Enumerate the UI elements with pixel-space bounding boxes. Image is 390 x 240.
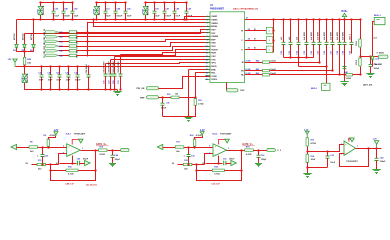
svg-text:100nF: 100nF [116, 16, 123, 18]
jumper J28 [266, 37, 273, 44]
svg-text:100nF 100V: 100nF 100V [113, 61, 115, 73]
wire [308, 167, 328, 169]
resistor R44 [263, 61, 270, 63]
resistor R25 [212, 169, 224, 171]
resistor R10 [99, 149, 108, 151]
wire + input [163, 147, 214, 148]
wire [254, 150, 267, 152]
wire [360, 67, 362, 75]
svg-text:R42: R42 [59, 36, 62, 39]
capacitor C29 [113, 74, 117, 90]
svg-text:10nF: 10nF [330, 162, 335, 164]
wire to U1 pin 4 [94, 20, 211, 27]
wire [114, 57, 116, 75]
wire to U1 pin 18 [196, 73, 211, 98]
capacitor C36 [161, 97, 165, 116]
svg-text:BUS-1: BUS-1 [311, 88, 318, 90]
capacitor C48 [71, 2, 75, 19]
U1 pin 8 [205, 39, 210, 41]
wire [270, 70, 333, 72]
wire [59, 32, 70, 34]
svg-text:C49: C49 [115, 154, 118, 157]
svg-text:C50: C50 [281, 51, 283, 54]
svg-text:100nF 100V: 100nF 100V [118, 61, 120, 73]
net flag C5_C5 [46, 31, 59, 34]
svg-text:BG5H: BG5H [211, 26, 217, 28]
wire [226, 163, 231, 165]
capacitor C46 [87, 67, 91, 90]
net flag C5_C4 [46, 35, 59, 38]
svg-text:C60: C60 [350, 51, 352, 54]
svg-text:R45: R45 [256, 68, 259, 71]
wire PW_OK to U1 [159, 77, 211, 89]
wire output [227, 150, 245, 152]
svg-text:54DC= NPVA0986ML323: 54DC= NPVA0986ML323 [233, 8, 259, 11]
wire feedback outer [51, 151, 96, 181]
U1 pin 4 [205, 26, 210, 28]
svg-text:C53: C53 [304, 51, 306, 54]
svg-text:4.7kΩ: 4.7kΩ [68, 173, 74, 176]
resistor R45 [69, 50, 77, 52]
power V+ IC4.1 [72, 140, 81, 145]
svg-text:NuF 400V: NuF 400V [303, 31, 306, 40]
U1 pin 19 [205, 75, 210, 77]
capacitor C44 [114, 2, 118, 19]
svg-text:100nF: 100nF [374, 68, 381, 70]
svg-text:SMF18CA: SMF18CA [42, 5, 45, 15]
svg-text:C51: C51 [289, 51, 291, 54]
resistor R6 [29, 146, 38, 148]
svg-text:CSC: CSC [240, 90, 245, 92]
svg-text:C46 100nF: C46 100nF [85, 63, 88, 73]
svg-text:100nF: 100nF [64, 16, 71, 18]
svg-text:TSV912IDT: TSV912IDT [220, 133, 232, 135]
svg-text:R44: R44 [59, 45, 62, 48]
wire comb row 2 [299, 66, 327, 68]
net flag C5_C3 [46, 40, 59, 43]
svg-text:R41: R41 [59, 31, 62, 34]
svg-text:C34 1nF: C34 1nF [211, 182, 220, 185]
svg-text:TVS2: TVS2 [142, 8, 144, 14]
wire BUS+ rail [245, 19, 361, 21]
wire [48, 147, 50, 148]
resistor R50 [23, 57, 25, 65]
wire [60, 163, 77, 165]
wire [245, 62, 263, 64]
wire [353, 74, 361, 76]
svg-text:CSC: CSC [211, 56, 216, 58]
wire [226, 83, 228, 91]
capacitor C45 [124, 2, 128, 19]
resistor R21 [183, 163, 192, 165]
svg-text:SMF18CA: SMF18CA [26, 73, 29, 83]
net flag V_J [267, 149, 276, 152]
svg-text:C57: C57 [331, 51, 333, 54]
resistor R12 [66, 169, 78, 171]
svg-text:C52: C52 [297, 51, 299, 54]
svg-text:100nF: 100nF [83, 159, 89, 161]
power flag 12V [13, 59, 17, 67]
svg-text:C59: C59 [343, 51, 345, 54]
wire + input [308, 145, 345, 152]
resistor R51 [359, 39, 361, 47]
svg-text:(21.3A:2V): (21.3A:2V) [86, 183, 97, 186]
U1 pin 14 [205, 59, 210, 61]
svg-text:10uF: 10uF [39, 80, 44, 82]
svg-text:2TB-0: 2TB-0 [356, 41, 358, 46]
ground [340, 81, 348, 86]
U1 pin 1 [205, 16, 210, 18]
jumper J26 [266, 46, 273, 53]
svg-text:4.7kΩ: 4.7kΩ [196, 134, 202, 137]
svg-text:VSV: VSV [211, 29, 216, 31]
svg-text:10uF: 10uF [56, 80, 61, 82]
power V+ IC4.3 [349, 138, 352, 142]
resistor R45 [263, 69, 270, 71]
svg-text:100pF: 100pF [115, 159, 121, 161]
wire [194, 147, 196, 148]
svg-text:C55: C55 [318, 51, 320, 54]
wire [105, 64, 107, 75]
wire feedback outer [197, 151, 242, 181]
U1 pin 15 [205, 62, 210, 64]
net flag N1 [85, 160, 91, 165]
svg-text:COW: COW [211, 76, 217, 78]
svg-text:4.7kΩ: 4.7kΩ [198, 103, 204, 106]
svg-text:R46: R46 [256, 72, 259, 75]
svg-text:10uF: 10uF [48, 80, 53, 82]
svg-text:12V: 12V [8, 59, 12, 61]
svg-text:VSWH: VSWH [211, 23, 218, 25]
svg-text:100nF 100V: 100nF 100V [109, 61, 111, 73]
svg-text:VTS: VTS [211, 59, 216, 61]
svg-text:C36: C36 [166, 102, 169, 104]
wire [245, 40, 267, 42]
svg-text:VODH: VODH [211, 49, 218, 51]
svg-text:W: W [241, 31, 243, 33]
svg-text:RVA: RVA [211, 68, 216, 71]
U1 pin 7 [205, 36, 210, 38]
svg-text:SMF18CA: SMF18CA [147, 5, 150, 15]
resistor R46 [263, 74, 270, 76]
wire [24, 34, 26, 41]
resistor R16 [171, 96, 179, 98]
capacitor C33 [326, 152, 330, 168]
svg-text:R45: R45 [59, 50, 62, 53]
svg-text:NuF 400V: NuF 400V [342, 31, 345, 40]
wire gate vertical [273, 20, 275, 53]
wire to U1 pin 9 [77, 43, 211, 47]
wire to U1 pin [111, 59, 211, 61]
svg-text:C4B 1nF: C4B 1nF [65, 182, 75, 185]
capacitor C38 [257, 150, 261, 162]
U1 pin 20 [205, 79, 210, 81]
wire - input [205, 154, 214, 165]
wire to U1 pin 10 [77, 47, 211, 51]
wire bottom rail [17, 19, 190, 21]
connector BUS-1 [322, 83, 331, 90]
net flag TMP [147, 96, 159, 99]
wire feedback [51, 170, 96, 172]
resistor R48 [346, 74, 353, 76]
wire [24, 52, 26, 58]
wire to U1 pin 7 [77, 36, 211, 38]
wire to U1 pin 6 [77, 32, 211, 34]
capacitor C45 [76, 67, 80, 90]
svg-text:4.7kΩ: 4.7kΩ [50, 134, 56, 137]
capacitor C52 [297, 20, 301, 67]
U1 pin 13 [205, 56, 210, 58]
capacitor C58 [338, 20, 342, 75]
op-amp IC4.1 [67, 144, 81, 157]
ground [113, 90, 121, 96]
capacitor C34 [224, 161, 226, 165]
svg-text:C58: C58 [337, 51, 339, 54]
svg-text:RVP: RVP [211, 39, 216, 41]
resistor R44 [69, 45, 77, 47]
wire - input lower [32, 164, 59, 166]
svg-text:100nF: 100nF [165, 16, 172, 18]
svg-text:C3A: C3A [380, 157, 385, 160]
capacitor C59 [343, 20, 347, 81]
svg-text:21 NV: 21 NV [245, 73, 251, 75]
power flag BUS+ [342, 13, 346, 19]
resistor R9 [47, 139, 49, 146]
svg-text:NuF 400V: NuF 400V [336, 31, 339, 40]
op-amp IC4.3 [344, 141, 356, 156]
capacitor C56 [325, 20, 329, 84]
wire [110, 60, 112, 75]
svg-text:VSW0: VSW0 [211, 19, 218, 21]
wire [270, 74, 347, 76]
TVS diode TVS1 [38, 2, 42, 19]
svg-text:V5V: V5V [211, 33, 216, 35]
net flag N2 [231, 160, 237, 165]
wire to U1 pin 8 [77, 40, 211, 42]
connector BUS+1 [374, 17, 385, 24]
capacitor C27 [109, 74, 113, 90]
svg-text:23 VA: 23 VA [245, 59, 251, 62]
wire to U1 pin 17 [189, 69, 211, 71]
svg-text:RUH: RUH [211, 53, 216, 55]
ground [303, 172, 311, 178]
capacitor C47 [163, 2, 167, 19]
wire to U1 pin 2 [190, 19, 211, 21]
wire top rail [97, 2, 126, 4]
capacitor C41 [40, 67, 44, 90]
svg-text:(43*1.2V): (43*1.2V) [363, 84, 373, 87]
wire stub [87, 33, 89, 57]
svg-text:4.7kΩ: 4.7kΩ [311, 142, 317, 145]
wire + input [17, 147, 67, 148]
svg-text:NuF 400V: NuF 400V [310, 31, 313, 40]
resistor R42 [69, 36, 77, 38]
capacitor C53 [305, 20, 309, 58]
svg-text:2TB-0: 2TB-0 [356, 60, 358, 65]
resistor R17 [175, 146, 184, 148]
capacitor C42 [49, 67, 53, 90]
wire to U1 pin [115, 56, 211, 58]
svg-text:C017-1: C017-1 [350, 34, 352, 40]
svg-text:10uF: 10uF [54, 16, 59, 18]
net flag V_G [121, 149, 130, 152]
svg-text:TMP: TMP [140, 97, 145, 99]
wire [206, 163, 223, 165]
resistor R19 [194, 99, 196, 106]
net flag C5_C0 [46, 54, 59, 57]
wire [360, 48, 362, 59]
resistor R11 [37, 163, 46, 165]
svg-text:NuF 400V: NuF 400V [323, 31, 326, 40]
svg-text:V5U: V5U [211, 46, 216, 48]
capacitor C44 [67, 67, 71, 90]
U1 pin 11 [205, 49, 210, 51]
wire [245, 74, 263, 76]
wire [195, 136, 203, 140]
wire [24, 65, 26, 67]
wire [59, 50, 70, 52]
ground [372, 168, 380, 174]
wire [80, 163, 85, 165]
U1 pin 16 [205, 66, 210, 68]
ground [255, 162, 262, 167]
wire top rail [146, 2, 187, 4]
resistor R52 [359, 58, 361, 66]
svg-text:BZT52C: BZT52C [22, 33, 24, 40]
capacitor C55 [318, 20, 322, 63]
jumper J29 [266, 27, 273, 34]
svg-text:BUS+1: BUS+1 [374, 15, 382, 17]
svg-text:VSU: VSU [211, 43, 216, 45]
svg-text:22 VA: 22 VA [245, 68, 251, 71]
svg-text:IC4.2: IC4.2 [212, 132, 218, 135]
svg-text:1.0kΩ: 1.0kΩ [346, 78, 352, 80]
svg-text:100nF: 100nF [75, 80, 82, 82]
resistor R43 [69, 40, 77, 42]
ground [185, 116, 193, 121]
svg-text:C5_C0: C5_C0 [44, 52, 46, 58]
U1 pin 18 [205, 72, 210, 74]
svg-text:100nF 100V: 100nF 100V [104, 61, 106, 73]
svg-text:C40: C40 [77, 158, 80, 161]
net flag IN1 [11, 144, 17, 149]
capacitor C49 [173, 2, 177, 19]
wire [120, 55, 122, 75]
resistor R13 [306, 138, 308, 146]
svg-text:100nF: 100nF [380, 161, 387, 163]
wire [49, 136, 56, 140]
ground [109, 162, 116, 167]
capacitor C31 [119, 74, 123, 90]
resistor R14 [306, 154, 308, 162]
power V+ IC4.2 [219, 140, 228, 145]
capacitor C54 [312, 20, 316, 58]
op-amp IC4.2 [213, 144, 227, 157]
wire output [81, 150, 99, 152]
wire [108, 150, 121, 152]
capacitor C51 [289, 20, 293, 58]
wire [180, 97, 196, 99]
diode D6 [32, 41, 36, 52]
U1 pin 17 [205, 69, 210, 71]
capacitor C4A [369, 57, 373, 72]
svg-text:100nF: 100nF [161, 108, 167, 110]
svg-text:R16: R16 [167, 94, 170, 96]
diode D12 [371, 53, 375, 64]
wire [163, 106, 196, 117]
ground [366, 72, 374, 78]
wire comb row 1 [284, 57, 314, 59]
svg-text:TSV912IDT: TSV912IDT [346, 161, 358, 163]
U1 pin 5 [205, 29, 210, 31]
svg-text:100nF: 100nF [229, 159, 235, 161]
svg-text:1.2V: 1.2V [53, 129, 58, 132]
svg-text:RVVL: RVVL [211, 66, 217, 68]
capacitor C50 [282, 20, 286, 58]
svg-text:TVS3: TVS3 [22, 76, 24, 82]
net flag V_BUS [378, 55, 388, 58]
svg-text:PW_OK: PW_OK [136, 88, 144, 90]
capacitor C40 [62, 2, 66, 19]
svg-text:BUS+: BUS+ [341, 11, 348, 13]
svg-text:2⟩: 2⟩ [56, 162, 58, 165]
wire feedback [340, 149, 369, 167]
wire to U1 pin 11 [77, 50, 211, 56]
svg-text:2⟩: 2⟩ [202, 162, 204, 165]
wire [188, 70, 190, 117]
wire [59, 36, 70, 38]
capacitor C40 [77, 161, 79, 165]
svg-text:NuF 400V: NuF 400V [317, 31, 320, 40]
capacitor C25 [104, 74, 108, 90]
svg-text:R43: R43 [59, 40, 62, 43]
wire top rail [41, 2, 73, 4]
svg-text:TSV912IDT: TSV912IDT [74, 133, 86, 135]
capacitor C50 [185, 2, 189, 19]
wire to U1 pin [106, 63, 211, 64]
resistor R41 [69, 31, 77, 33]
op-amp U1 main IC AFE [210, 12, 245, 83]
svg-text:100pF: 100pF [261, 159, 267, 161]
svg-text:10uF: 10uF [106, 16, 111, 18]
svg-text:IC4.1: IC4.1 [66, 132, 72, 135]
net flag C5_C1 [46, 49, 59, 52]
U1 pin 6 [205, 32, 210, 34]
svg-text:SMF18CA: SMF18CA [98, 5, 101, 15]
resistor R20 [193, 139, 195, 146]
net flag CSC [227, 89, 239, 92]
capacitor C21 [104, 2, 108, 19]
capacitor C4B [343, 64, 347, 80]
capacitor C3A [375, 148, 379, 168]
svg-text:10Ω: 10Ω [27, 62, 31, 64]
wire V_BUS [361, 56, 379, 58]
svg-text:10uF: 10uF [127, 16, 132, 18]
TVS diode TVS3 [22, 67, 26, 90]
diode D5 [23, 41, 27, 52]
wire to U1 pin 5 [25, 30, 211, 34]
wire to U1 pin 16 [16, 66, 211, 68]
capacitor C30 [187, 147, 191, 165]
resistor R46 [69, 54, 77, 56]
wire [245, 70, 263, 72]
capacitor C49 [111, 150, 115, 162]
wire to U1 pin 1 [185, 17, 211, 20]
svg-text:C56: C56 [324, 51, 326, 54]
svg-text:RVL: RVL [211, 73, 216, 75]
wire [372, 64, 374, 67]
wire [16, 20, 18, 41]
